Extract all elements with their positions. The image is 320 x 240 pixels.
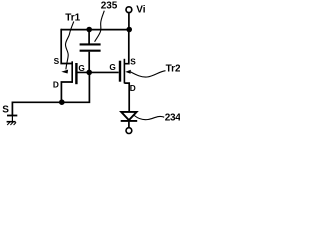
svg-text:S: S	[2, 105, 9, 116]
svg-text:234: 234	[165, 113, 180, 124]
leader line 235	[95, 11, 105, 42]
wire Tr1 drain to bottom rail	[61, 82, 72, 102]
svg-text:G: G	[78, 63, 84, 73]
node gate junction	[86, 70, 92, 76]
wire Tr1 source to top rail	[61, 29, 72, 64]
transistor Tr2 channel	[123, 59, 125, 84]
ground bar 1	[7, 115, 17, 117]
wire top rail Vi	[61, 29, 129, 31]
diode 234 cathode bar	[121, 120, 138, 122]
node capacitor-rail junction	[86, 27, 92, 33]
leader line Tr2	[131, 71, 166, 77]
arrowhead of Tr1 leader	[61, 70, 68, 74]
wire Tr2 drain to diode	[124, 83, 129, 111]
leader line Tr1	[65, 22, 73, 70]
wire gate node to bottom rail	[12, 72, 89, 115]
svg-text:G: G	[109, 62, 115, 72]
ground stem	[11, 116, 13, 121]
svg-text:S: S	[130, 57, 136, 67]
transistor Tr1 channel	[71, 61, 73, 83]
svg-text:D: D	[130, 83, 136, 93]
ground bar 2	[7, 121, 16, 123]
diode 234 triangle	[121, 112, 136, 120]
svg-text:D: D	[53, 80, 59, 90]
terminal output circle	[126, 128, 132, 134]
node Vi-rail junction	[126, 27, 132, 33]
svg-text:Vi: Vi	[136, 5, 145, 16]
node Tr1 drain junction	[59, 99, 65, 105]
svg-text:Tr1: Tr1	[65, 13, 80, 24]
wire diode to output terminal	[128, 122, 130, 128]
capacitor 235 top plate	[80, 43, 101, 45]
arrowhead of Tr2 leader	[125, 70, 131, 74]
wire gate bus Tr1-Tr2	[78, 71, 119, 73]
svg-text:S: S	[54, 56, 60, 66]
ground hatch marks	[7, 122, 16, 125]
svg-text:Tr2: Tr2	[166, 63, 180, 74]
transistor Tr1 gate bar	[75, 63, 77, 84]
capacitor 235 bottom plate	[80, 50, 101, 52]
wire Tr2 source to top rail	[124, 30, 128, 64]
terminal Vi	[126, 7, 132, 13]
svg-text:235: 235	[101, 1, 118, 12]
wire Vi terminal stub	[128, 13, 130, 30]
transistor Tr2 gate bar	[119, 61, 121, 82]
leader line 234	[134, 116, 164, 120]
wire capacitor bottom stub	[88, 52, 90, 73]
wire capacitor top stub	[88, 30, 90, 44]
